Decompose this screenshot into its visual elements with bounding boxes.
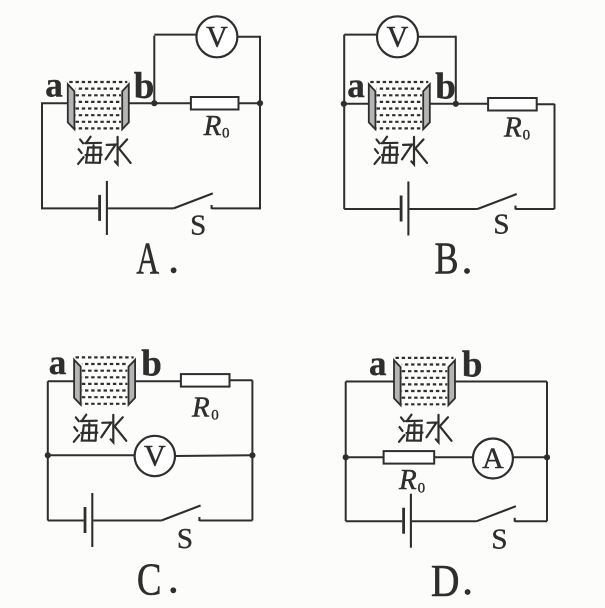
svg-text:R: R — [203, 110, 222, 142]
svg-text:0: 0 — [418, 480, 426, 496]
svg-text:0: 0 — [211, 407, 219, 423]
svg-text:S: S — [190, 210, 206, 242]
svg-text:a: a — [49, 343, 67, 382]
svg-text:V: V — [144, 440, 166, 473]
svg-text:a: a — [369, 344, 387, 383]
svg-text:b: b — [134, 66, 155, 107]
svg-text:C: C — [137, 554, 162, 604]
svg-text:R: R — [503, 112, 522, 144]
svg-text:0: 0 — [523, 127, 531, 143]
svg-text:S: S — [493, 209, 509, 241]
svg-text:R: R — [191, 392, 210, 424]
svg-text:V: V — [387, 20, 409, 53]
svg-text:b: b — [141, 344, 162, 385]
svg-text:A: A — [136, 234, 159, 284]
svg-text:b: b — [435, 66, 456, 107]
svg-text:A: A — [482, 442, 504, 475]
svg-text:a: a — [45, 65, 63, 104]
svg-text:b: b — [462, 345, 483, 386]
svg-text:B: B — [434, 234, 458, 284]
svg-text:V: V — [206, 20, 228, 53]
svg-text:R: R — [398, 464, 417, 496]
svg-text:S: S — [491, 524, 507, 556]
svg-text:a: a — [347, 66, 365, 105]
svg-text:0: 0 — [222, 126, 230, 142]
svg-text:S: S — [177, 523, 193, 555]
svg-text:D: D — [431, 557, 460, 607]
